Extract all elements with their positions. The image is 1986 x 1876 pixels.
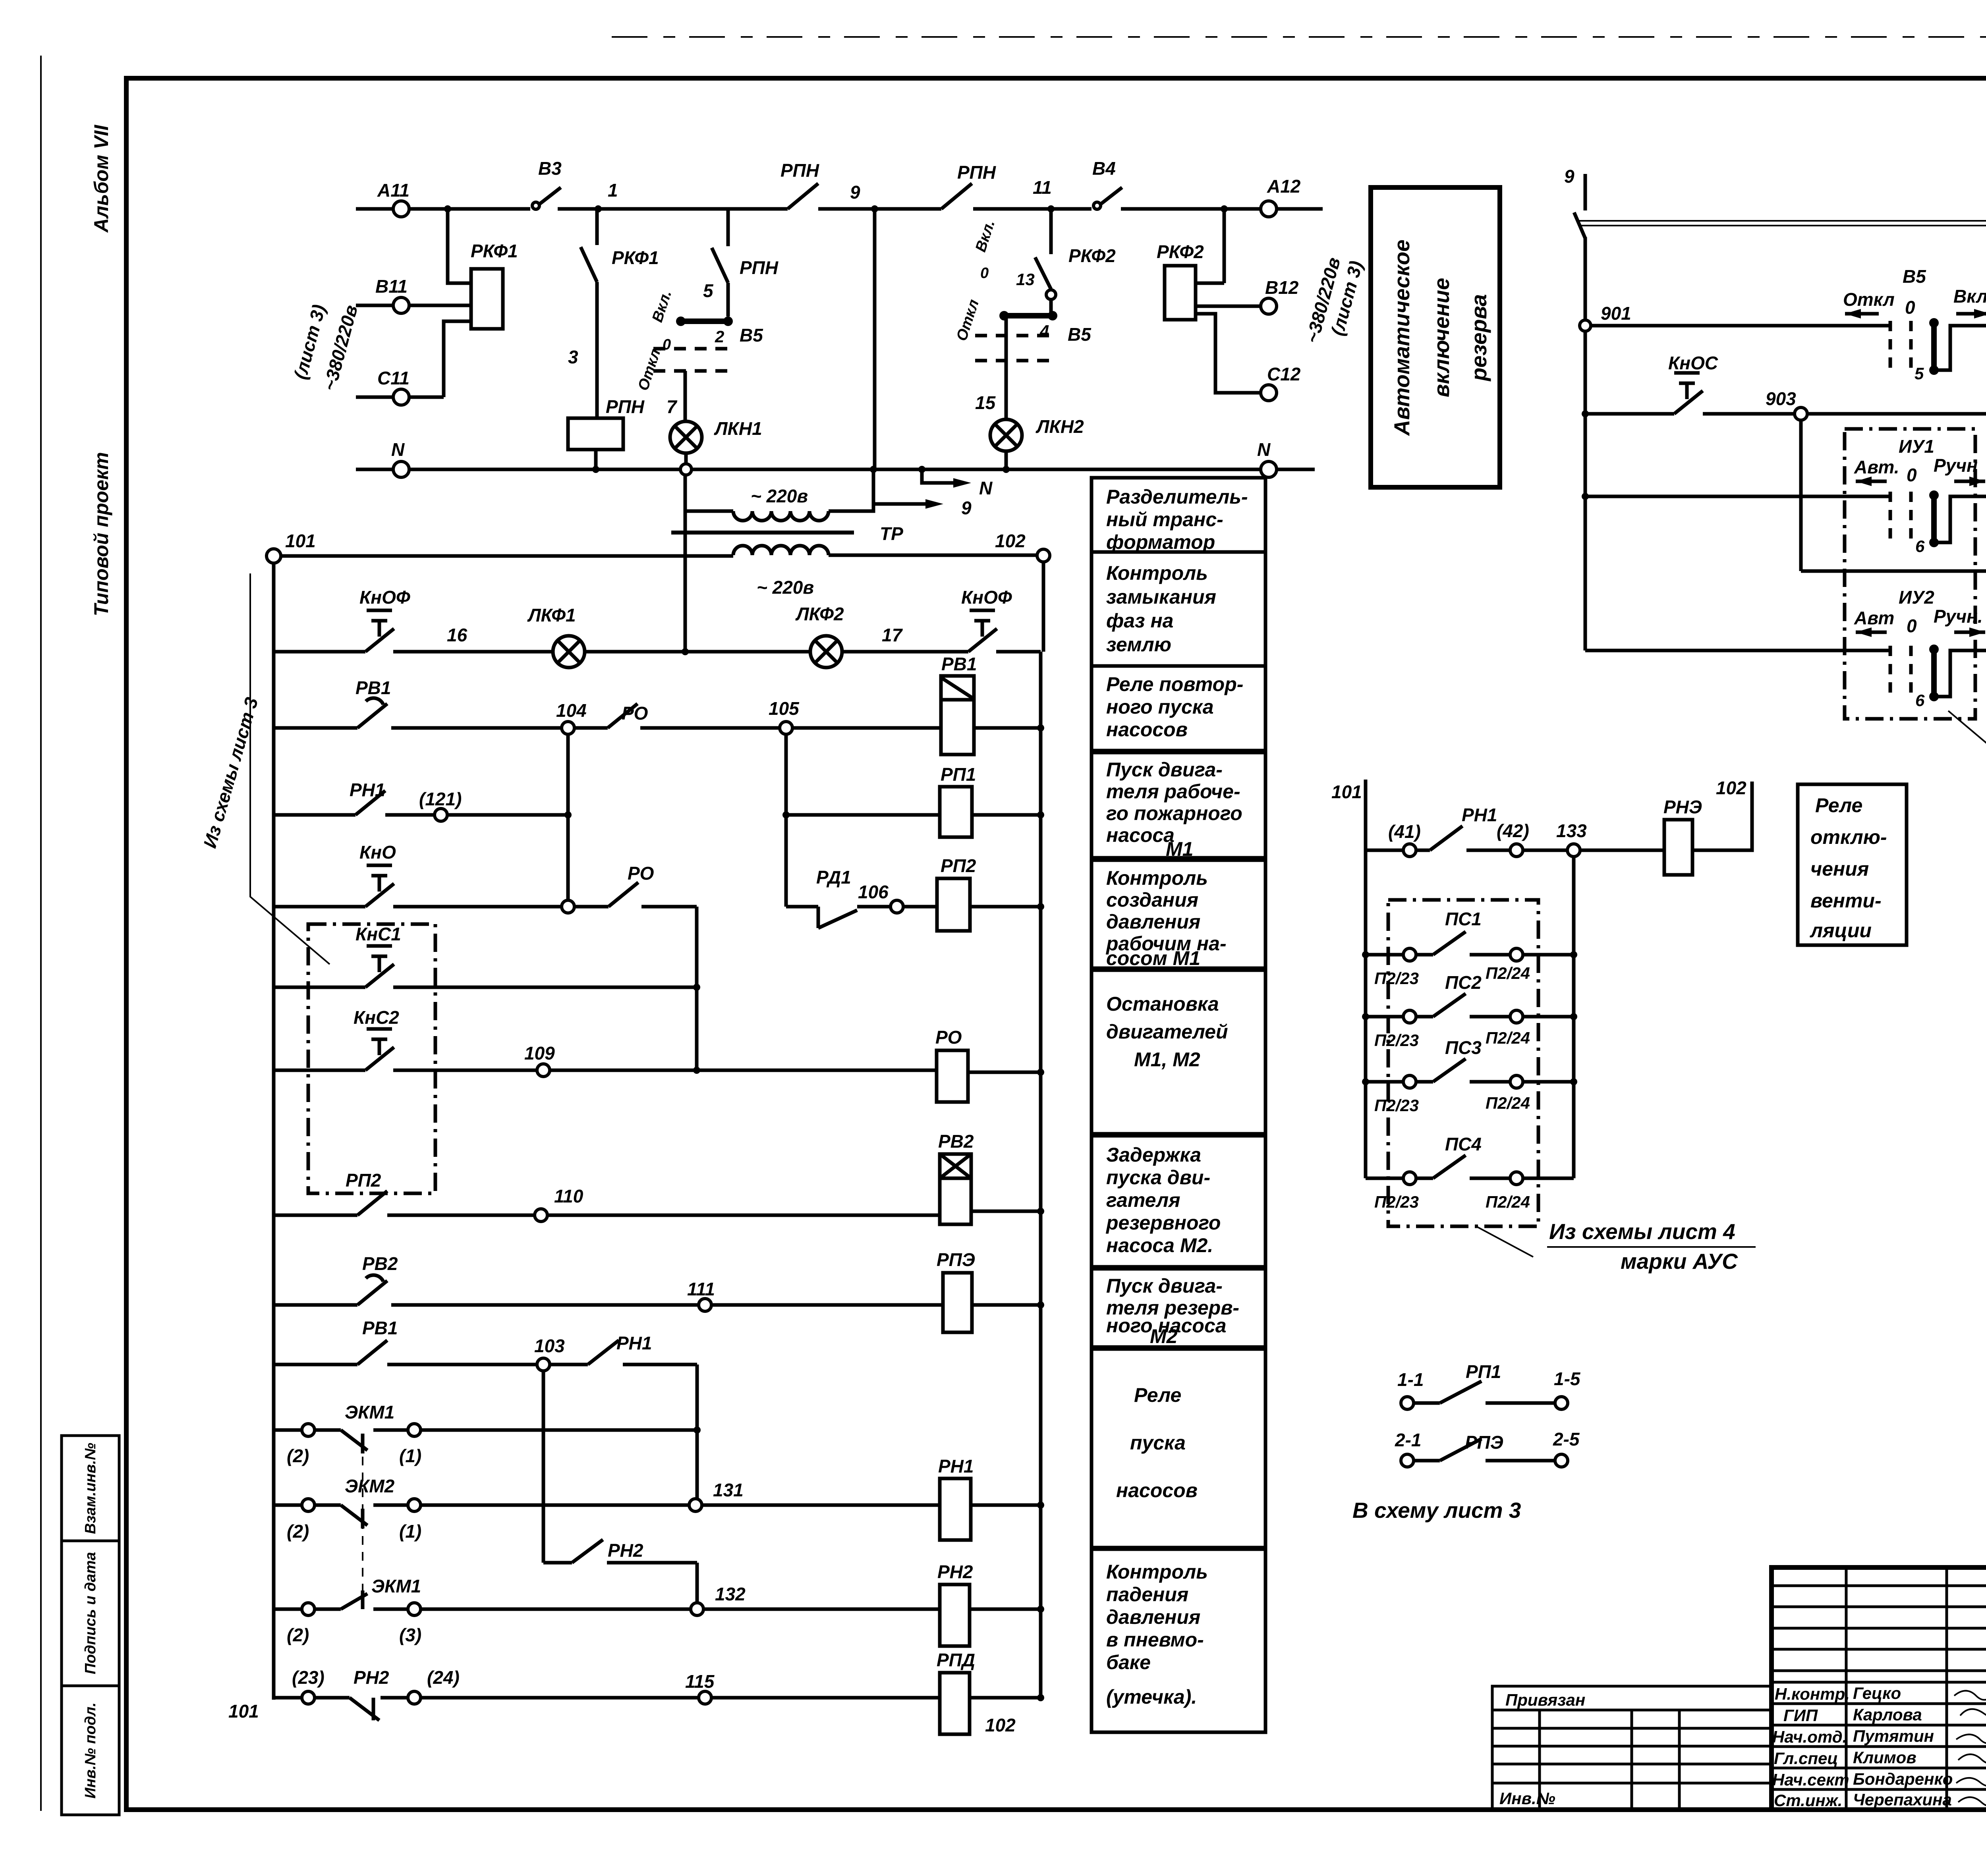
svg-text:включение: включение [1429, 278, 1454, 398]
svg-text:теля рабоче-: теля рабоче- [1106, 780, 1240, 803]
svg-text:0: 0 [663, 336, 671, 353]
svg-text:2: 2 [715, 327, 724, 346]
wire RKF2 top [1196, 209, 1224, 283]
lamp LKN2 [990, 419, 1022, 451]
svg-text:РВ2: РВ2 [938, 1131, 974, 1152]
contact RPN second [941, 183, 972, 209]
page left edge line [40, 56, 42, 1811]
svg-text:РД1: РД1 [816, 867, 851, 888]
svg-text:РПН: РПН [780, 160, 819, 181]
svg-text:резерва: резерва [1466, 294, 1491, 382]
terminal B12 [1261, 298, 1277, 314]
signature squiggles [1954, 1691, 1986, 1807]
svg-text:ляции: ляции [1810, 919, 1872, 942]
node 110 [535, 1209, 547, 1222]
function box 9 [1092, 1349, 1265, 1548]
row 6: button KnS2 [274, 1069, 537, 1072]
wire (121) to v104 [447, 813, 568, 817]
svg-text:Ст.инж.: Ст.инж. [1774, 1791, 1842, 1810]
node 115 [699, 1691, 711, 1704]
svg-text:115: 115 [685, 1671, 715, 1692]
svg-text:РН2: РН2 [354, 1667, 389, 1688]
svg-text:Взам.инв.№: Взам.инв.№ [82, 1443, 99, 1534]
svg-text:РО: РО [622, 703, 648, 724]
relay coil RP1 [940, 787, 972, 837]
contact PS1 [1366, 953, 1403, 957]
svg-text:го пожарного: го пожарного [1106, 802, 1242, 824]
svg-text:ПС2: ПС2 [1445, 972, 1482, 993]
wire rail 102 right [1041, 562, 1043, 1700]
svg-text:ТР: ТР [880, 523, 903, 544]
svg-text:111: 111 [687, 1279, 715, 1299]
svg-text:В5: В5 [740, 325, 763, 345]
svg-text:Реле повтор-: Реле повтор- [1106, 673, 1243, 695]
svg-text:~ 220в: ~ 220в [757, 577, 814, 598]
svg-text:РКФ2: РКФ2 [1157, 241, 1204, 262]
svg-text:Альбом VII: Альбом VII [90, 125, 112, 234]
relay coil RPD [940, 1673, 970, 1734]
svg-text:Бондаренко: Бондаренко [1853, 1770, 1953, 1788]
wire A11 drop [448, 209, 471, 283]
row 4: button KnO [274, 905, 562, 909]
svg-text:0: 0 [1907, 616, 1917, 636]
terminal A11 [393, 201, 409, 217]
svg-text:4: 4 [1039, 322, 1049, 340]
svg-text:105: 105 [769, 698, 800, 719]
node 104 [562, 722, 574, 734]
wire 115 to RPD coil [711, 1696, 940, 1700]
contact RPN top [788, 183, 818, 209]
node on v104 row4 [562, 900, 574, 913]
svg-text:падения: падения [1106, 1583, 1188, 1606]
svg-text:РН1: РН1 [350, 780, 385, 800]
node 109 [537, 1064, 550, 1077]
rail 101 mid [1364, 780, 1368, 1178]
lamp LKN1 [670, 421, 702, 453]
svg-text:РПЭ: РПЭ [1465, 1432, 1503, 1453]
svg-text:М1: М1 [1166, 838, 1193, 860]
node 903 [1795, 407, 1807, 420]
svg-text:КнОС: КнОС [1668, 353, 1718, 373]
contact RO row4 [574, 882, 697, 907]
contact RPN vertical [712, 209, 728, 317]
svg-text:ГИП: ГИП [1783, 1706, 1818, 1725]
svg-text:гателя: гателя [1106, 1189, 1180, 1211]
svg-text:Н.контр.: Н.контр. [1775, 1685, 1850, 1703]
svg-text:17: 17 [882, 625, 903, 645]
svg-text:Инв.№ подл.: Инв.№ подл. [82, 1702, 99, 1799]
wire 132 to RN2 coil [703, 1608, 940, 1611]
svg-text:Подпись и дата: Подпись и дата [82, 1552, 99, 1674]
svg-text:(2): (2) [287, 1446, 309, 1466]
svg-text:Разделитель-: Разделитель- [1106, 486, 1248, 508]
svg-text:Задержка: Задержка [1106, 1144, 1201, 1166]
svg-text:В4: В4 [1092, 158, 1116, 179]
contact PS2 [1366, 1015, 1403, 1019]
terminal C11 [393, 389, 409, 405]
svg-text:133: 133 [1556, 820, 1587, 841]
svg-text:Контроль: Контроль [1106, 867, 1208, 889]
svg-text:Вкл: Вкл [1953, 286, 1986, 307]
contact RP1 standalone [1401, 1397, 1414, 1409]
svg-text:чения: чения [1810, 858, 1869, 880]
contact RPE standalone [1401, 1454, 1414, 1467]
title block columns signatures [1846, 1567, 1986, 1810]
svg-text:Гл.спец: Гл.спец [1774, 1749, 1838, 1768]
svg-text:~ 220в: ~ 220в [751, 486, 808, 506]
box KnS dash-dot [308, 924, 435, 1193]
svg-text:Гецко: Гецко [1853, 1684, 1901, 1702]
contact RN2 mid [543, 1540, 697, 1609]
svg-text:0: 0 [1905, 297, 1915, 318]
wire 133 to RNE coil [1580, 849, 1664, 852]
svg-text:Автоматическое: Автоматическое [1389, 239, 1414, 436]
svg-text:104: 104 [556, 700, 587, 721]
relay coil RV1 [941, 676, 974, 755]
svg-text:В12: В12 [1265, 277, 1299, 298]
svg-text:РН1: РН1 [1462, 805, 1497, 825]
svg-text:Нач.сект: Нач.сект [1772, 1770, 1849, 1789]
wire 7 to lamp [684, 371, 687, 421]
row 2: contact RV1 [274, 726, 562, 730]
svg-text:РВ1: РВ1 [355, 677, 391, 698]
svg-text:ЛКФ2: ЛКФ2 [795, 604, 844, 624]
row 3b: wire v105 to RP1 coil [786, 813, 940, 817]
box AVR [1371, 187, 1500, 487]
svg-text:(1): (1) [399, 1521, 421, 1542]
svg-text:102: 102 [1716, 778, 1746, 798]
title block outer [1772, 1567, 1986, 1810]
relay RKF2 [1165, 266, 1196, 320]
svg-text:N: N [979, 478, 993, 498]
contact RN1 row9 [550, 1340, 697, 1365]
row 13: contact RN2 nc [274, 1696, 302, 1700]
svg-text:110: 110 [554, 1186, 583, 1206]
wire RKF2 to B12 [1196, 305, 1261, 308]
wire node11 drop [1049, 209, 1053, 254]
svg-text:КнС2: КнС2 [354, 1007, 399, 1028]
function box 10 [1092, 1549, 1265, 1732]
svg-text:РПД: РПД [937, 1650, 975, 1670]
svg-text:А11: А11 [377, 180, 410, 201]
switch B4 [1093, 202, 1101, 209]
svg-text:П2/23: П2/23 [1374, 969, 1419, 988]
wire vertical 104 [566, 734, 570, 907]
svg-text:Ручн: Ручн [1934, 455, 1978, 476]
svg-text:1: 1 [608, 180, 618, 201]
box IU dash-dot [1845, 429, 1975, 719]
row 10: EKM1 [274, 1428, 302, 1432]
svg-text:Из схемы лист 4: Из схемы лист 4 [1549, 1219, 1735, 1244]
svg-text:ЛКН2: ЛКН2 [1036, 416, 1084, 437]
wire row 900 [1591, 324, 1889, 328]
svg-text:отклю-: отклю- [1810, 826, 1887, 848]
svg-text:землю: землю [1106, 633, 1171, 656]
svg-text:(1): (1) [399, 1446, 421, 1466]
node 106 [891, 900, 903, 913]
svg-text:Типовой проект: Типовой проект [90, 452, 112, 616]
svg-text:РПН: РПН [740, 257, 779, 278]
svg-text:РКФ1: РКФ1 [612, 247, 659, 268]
double supply line [1579, 221, 1986, 226]
torn top edge dashed line [612, 36, 1986, 38]
svg-text:(121): (121) [419, 789, 462, 809]
diode D2 [1801, 569, 1986, 573]
svg-text:ЭКМ1: ЭКМ1 [371, 1576, 421, 1596]
svg-text:РП2: РП2 [941, 855, 976, 876]
svg-text:132: 132 [715, 1584, 746, 1604]
svg-text:1-1: 1-1 [1397, 1369, 1424, 1390]
function box 1 [1092, 478, 1265, 552]
svg-text:Авт: Авт [1854, 608, 1894, 628]
node 1 [595, 205, 602, 212]
packet switch B5 right [1049, 299, 1053, 316]
lamp LKF1 [553, 636, 585, 668]
wire 105 to RV1 coil [792, 726, 941, 730]
annotation Из схемы лист 4 [1478, 1227, 1533, 1257]
svg-text:101: 101 [228, 1701, 259, 1722]
svg-text:РН1: РН1 [616, 1333, 652, 1353]
svg-text:М2: М2 [1150, 1325, 1178, 1347]
svg-text:(3): (3) [399, 1625, 421, 1645]
svg-text:давления: давления [1106, 911, 1200, 933]
box PS dash-dot [1388, 900, 1538, 1226]
junction for RKF2 [1221, 205, 1228, 212]
svg-text:РПН: РПН [957, 162, 996, 183]
svg-text:П2/24: П2/24 [1486, 1029, 1530, 1047]
svg-text:6: 6 [1915, 537, 1925, 556]
svg-text:Пуск двига-: Пуск двига- [1106, 759, 1223, 781]
row 11: EKM2 [274, 1504, 302, 1507]
svg-text:9: 9 [961, 498, 972, 518]
function box 3 [1092, 666, 1265, 751]
switch B3 [532, 202, 539, 209]
svg-text:ИУ1: ИУ1 [1899, 436, 1934, 457]
packet switch B5 signal [1890, 321, 1911, 375]
svg-text:903: 903 [1766, 388, 1796, 409]
wire vertical 105 [784, 734, 788, 907]
svg-text:Нач.отд.: Нач.отд. [1772, 1727, 1847, 1746]
row 8: contact RV2 [274, 1303, 699, 1307]
svg-text:Инв.№: Инв.№ [1499, 1789, 1555, 1808]
svg-text:Привязан: Привязан [1505, 1691, 1585, 1709]
svg-text:101: 101 [285, 531, 316, 551]
svg-text:С11: С11 [377, 368, 410, 388]
svg-text:П2/24: П2/24 [1486, 964, 1530, 982]
row 12: EKM1 lower [274, 1608, 302, 1611]
svg-text:П2/23: П2/23 [1374, 1193, 1419, 1211]
node 131 [689, 1499, 702, 1511]
svg-text:ЭКМ1: ЭКМ1 [345, 1402, 394, 1422]
svg-text:15: 15 [975, 392, 996, 413]
svg-text:9: 9 [850, 182, 860, 203]
transformer TR secondary [733, 546, 829, 555]
svg-text:ный транс-: ный транс- [1106, 508, 1223, 531]
svg-text:фаз на: фаз на [1106, 610, 1173, 632]
svg-text:ЭКМ2: ЭКМ2 [345, 1476, 395, 1496]
packet switch B5 left [681, 318, 728, 324]
svg-text:РНЭ: РНЭ [1663, 797, 1702, 817]
svg-text:РПЭ: РПЭ [937, 1249, 975, 1270]
svg-text:Остановка: Остановка [1106, 993, 1219, 1015]
svg-text:насосов: насосов [1116, 1479, 1198, 1502]
contact PS3 [1366, 1080, 1403, 1084]
svg-text:ИУ2: ИУ2 [1899, 587, 1934, 608]
svg-text:5: 5 [703, 280, 714, 301]
node 13 [1046, 290, 1056, 299]
svg-text:создания: создания [1106, 889, 1198, 911]
svg-text:901: 901 [1601, 303, 1631, 324]
relay coil RO [937, 1050, 968, 1102]
svg-text:баке: баке [1106, 1651, 1151, 1673]
wire row 907 left [1585, 649, 1889, 652]
terminal C12 [1261, 385, 1277, 401]
svg-text:С12: С12 [1267, 364, 1301, 384]
transformer core [671, 531, 854, 535]
svg-text:109: 109 [524, 1043, 555, 1063]
wire row 905 left [1585, 495, 1889, 498]
node lamp on N [680, 464, 692, 475]
svg-text:ПС3: ПС3 [1445, 1037, 1482, 1058]
svg-text:В3: В3 [538, 158, 562, 179]
wire vertical 903 [1799, 420, 1803, 571]
svg-text:(2): (2) [287, 1521, 309, 1542]
svg-text:пуска дви-: пуска дви- [1106, 1166, 1210, 1189]
relay coil RV2 [940, 1154, 971, 1224]
svg-text:N: N [1257, 439, 1271, 460]
relay coil RPN [568, 418, 623, 450]
svg-text:6: 6 [1915, 691, 1925, 710]
wire 109 to RO coil [550, 1069, 937, 1072]
wire 131 to RN1 coil [702, 1504, 940, 1507]
svg-text:КнОФ: КнОФ [359, 587, 410, 608]
svg-text:замыкания: замыкания [1106, 586, 1216, 608]
svg-text:пуска: пуска [1130, 1432, 1186, 1454]
svg-text:РКФ2: РКФ2 [1068, 245, 1116, 266]
svg-text:101: 101 [1331, 782, 1362, 802]
node 111 [699, 1299, 711, 1311]
svg-text:(42): (42) [1497, 820, 1529, 841]
svg-text:В11: В11 [375, 276, 408, 297]
node 901 [1580, 320, 1591, 331]
svg-text:В схему лист 3: В схему лист 3 [1352, 1498, 1521, 1523]
table Привязан [1492, 1686, 1772, 1810]
function box 8 [1092, 1269, 1265, 1347]
svg-text:N: N [391, 439, 405, 460]
contact RKF1 [581, 209, 597, 418]
arrow N tap [922, 469, 953, 483]
svg-text:РВ2: РВ2 [362, 1253, 398, 1274]
svg-text:РП2: РП2 [346, 1170, 381, 1191]
svg-text:7: 7 [667, 396, 678, 417]
svg-text:сосом М1: сосом М1 [1106, 947, 1200, 969]
svg-text:106: 106 [858, 882, 889, 902]
relay coil RN2 [940, 1585, 970, 1646]
relay coil RNE [1664, 820, 1692, 875]
svg-text:1-5: 1-5 [1554, 1368, 1581, 1389]
box Реле отключения вентиляции [1798, 784, 1907, 945]
wire corner down to KnS rows [695, 907, 699, 1070]
svg-text:131: 131 [713, 1480, 744, 1500]
svg-text:Контроль: Контроль [1106, 1561, 1208, 1583]
svg-text:двигателей: двигателей [1106, 1021, 1228, 1043]
lamp LKF2 [810, 636, 842, 668]
relay coil RP2 [937, 878, 970, 931]
transformer TR primary [685, 510, 733, 513]
svg-text:форматор: форматор [1106, 531, 1215, 553]
wire 111 to RPE coil [711, 1303, 943, 1307]
svg-text:РВ1: РВ1 [362, 1318, 398, 1338]
svg-text:РН1: РН1 [938, 1456, 974, 1476]
node 101 top [267, 549, 281, 563]
svg-text:0: 0 [980, 265, 989, 282]
node 11 [1047, 205, 1055, 212]
svg-text:П2/23: П2/23 [1374, 1031, 1419, 1050]
svg-text:Авт.: Авт. [1854, 457, 1899, 477]
svg-text:Карлова: Карлова [1853, 1705, 1922, 1724]
svg-text:КнС1: КнС1 [355, 924, 401, 944]
node 132 [691, 1603, 703, 1615]
function box 7 [1092, 1136, 1265, 1267]
svg-text:(2): (2) [287, 1625, 309, 1645]
terminal N left [393, 461, 409, 477]
svg-text:ного пуска: ного пуска [1106, 696, 1214, 718]
svg-text:РН2: РН2 [608, 1540, 643, 1561]
relay RKF1 [471, 269, 503, 329]
contact RKF2 [1035, 257, 1051, 289]
row 3: contact RN1 [274, 813, 435, 817]
row 1 wires mid [585, 650, 810, 654]
terminal N right [1261, 461, 1277, 477]
arrow 9 tap [873, 469, 925, 504]
svg-text:КнО: КнО [359, 842, 396, 863]
relay coil RN1 [940, 1478, 971, 1540]
contact PS4 [1366, 1177, 1403, 1180]
svg-text:П2/23: П2/23 [1374, 1096, 1419, 1115]
svg-text:П2/24: П2/24 [1486, 1193, 1530, 1211]
wire corner 103 down [695, 1365, 699, 1505]
svg-text:РН2: РН2 [937, 1561, 973, 1582]
wire vertical 133 [1572, 857, 1576, 1178]
svg-text:ЛКФ1: ЛКФ1 [527, 605, 576, 625]
svg-text:ЛКН1: ЛКН1 [714, 418, 762, 439]
relay coil RPE [943, 1273, 972, 1332]
svg-text:В5: В5 [1903, 266, 1926, 287]
svg-text:Климов: Климов [1853, 1748, 1916, 1767]
wire phase A top line [356, 207, 1323, 211]
row 1: button KnOF left [274, 650, 553, 654]
node 103 [537, 1358, 550, 1371]
svg-text:0: 0 [1907, 465, 1917, 485]
title block name rows [1772, 1682, 1986, 1789]
function box 6 [1092, 970, 1265, 1134]
function box 5 [1092, 860, 1265, 968]
wire rail 101 left [272, 563, 276, 1700]
svg-text:102: 102 [985, 1715, 1016, 1735]
EKM link dashed [362, 1457, 363, 1590]
margin stamp boxes [62, 1436, 119, 1815]
svg-text:венти-: венти- [1810, 890, 1882, 912]
svg-text:марки АУС: марки АУС [1621, 1249, 1738, 1274]
svg-text:(утечка).: (утечка). [1106, 1686, 1197, 1708]
svg-text:16: 16 [447, 625, 468, 645]
row 9: contact RV1 no [274, 1363, 537, 1366]
svg-text:103: 103 [534, 1336, 565, 1356]
svg-text:в пневмо-: в пневмо- [1106, 1629, 1204, 1651]
svg-text:РО: РО [628, 863, 654, 884]
svg-text:(24): (24) [427, 1667, 460, 1688]
wire rail 101-102 top [281, 554, 733, 558]
